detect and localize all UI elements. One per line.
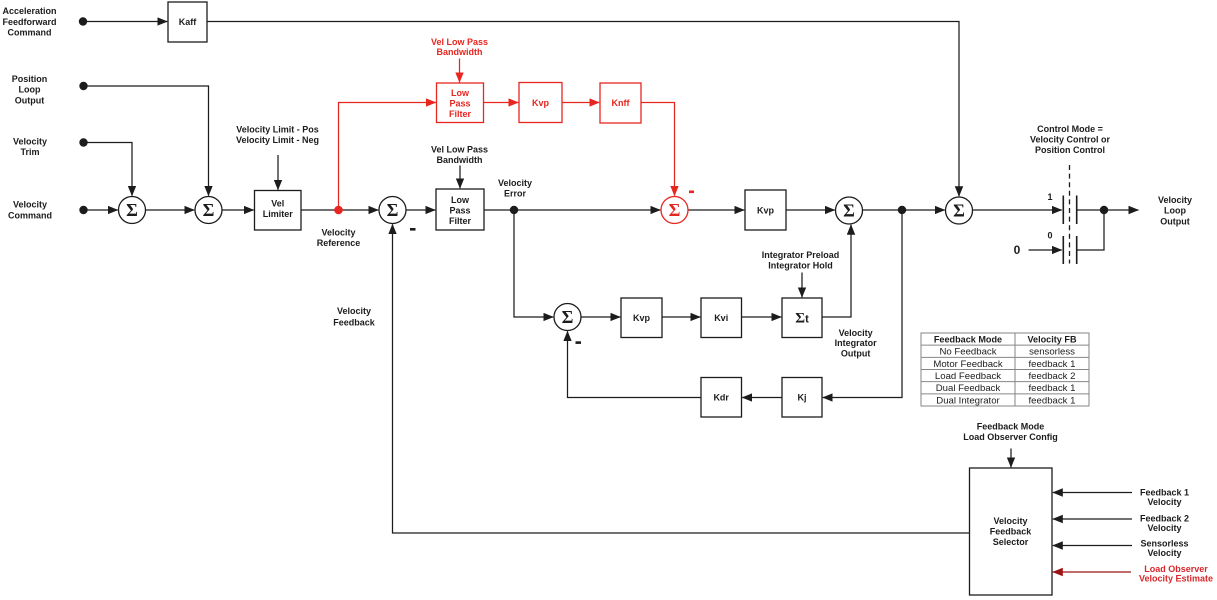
svg-text:Output: Output (15, 95, 45, 105)
svg-text:Velocity: Velocity (1147, 523, 1181, 533)
svg-text:Trim: Trim (20, 147, 39, 157)
svg-text:Velocity: Velocity (321, 228, 355, 238)
svg-text:Motor Feedback: Motor Feedback (933, 359, 1003, 370)
svg-text:Velocity: Velocity (839, 328, 873, 338)
svg-text:Low: Low (451, 88, 470, 98)
svg-text:Dual Integrator: Dual Integrator (936, 395, 1000, 406)
svg-text:Pass: Pass (449, 99, 470, 109)
svg-text:Vel Low Pass: Vel Low Pass (431, 145, 488, 155)
svg-text:Velocity: Velocity (1147, 548, 1181, 558)
svg-text:Σ: Σ (126, 200, 138, 220)
svg-text:Integrator Hold: Integrator Hold (768, 261, 833, 271)
svg-text:Output: Output (1160, 216, 1190, 226)
svg-text:Command: Command (7, 28, 51, 38)
svg-text:Velocity: Velocity (1147, 497, 1181, 507)
svg-text:Limiter: Limiter (263, 209, 294, 219)
svg-text:1: 1 (1047, 192, 1052, 202)
svg-text:Sensorless: Sensorless (1140, 539, 1188, 549)
svg-text:Σ: Σ (387, 200, 399, 220)
svg-text:Kaff: Kaff (179, 17, 198, 27)
svg-text:Load Feedback: Load Feedback (935, 371, 1001, 382)
svg-text:Feedforward: Feedforward (2, 17, 56, 27)
svg-text:Filter: Filter (449, 216, 472, 226)
svg-text:Bandwidth: Bandwidth (437, 155, 483, 165)
svg-text:feedback 1: feedback 1 (1029, 383, 1076, 394)
svg-text:0: 0 (1014, 243, 1021, 257)
svg-text:Position Control: Position Control (1035, 145, 1105, 155)
svg-text:Output: Output (841, 349, 871, 359)
svg-text:Position: Position (12, 74, 48, 84)
svg-text:Filter: Filter (449, 109, 472, 119)
svg-text:Kdr: Kdr (713, 392, 729, 402)
svg-text:Velocity Control or: Velocity Control or (1030, 135, 1111, 145)
svg-text:Velocity: Velocity (13, 137, 47, 147)
svg-text:Load Observer: Load Observer (1144, 564, 1208, 574)
svg-text:Velocity: Velocity (993, 516, 1027, 526)
svg-text:Feedback Mode: Feedback Mode (977, 422, 1045, 432)
svg-text:0: 0 (1047, 231, 1052, 241)
svg-text:Acceleration: Acceleration (2, 6, 56, 16)
svg-text:Velocity Limit - Neg: Velocity Limit - Neg (236, 135, 319, 145)
svg-text:Pass: Pass (449, 206, 470, 216)
svg-text:Σt: Σt (795, 311, 809, 327)
svg-text:Kvi: Kvi (714, 313, 728, 323)
svg-text:Feedback 2: Feedback 2 (1140, 514, 1189, 524)
svg-text:feedback 1: feedback 1 (1029, 359, 1076, 370)
svg-text:Kvp: Kvp (532, 98, 550, 108)
svg-text:Reference: Reference (317, 238, 361, 248)
svg-text:Integrator Preload: Integrator Preload (762, 250, 840, 260)
svg-text:Σ: Σ (843, 201, 855, 221)
svg-text:Σ: Σ (669, 200, 681, 220)
svg-text:Loop: Loop (19, 85, 41, 95)
svg-text:No Feedback: No Feedback (939, 347, 996, 358)
svg-text:Σ: Σ (953, 201, 965, 221)
svg-text:Σ: Σ (562, 307, 574, 327)
svg-text:Kj: Kj (798, 392, 807, 402)
svg-text:feedback 2: feedback 2 (1029, 371, 1076, 382)
svg-text:Control Mode =: Control Mode = (1037, 124, 1103, 134)
svg-text:Σ: Σ (203, 200, 215, 220)
svg-text:Loop: Loop (1164, 206, 1186, 216)
svg-text:Feedback Mode: Feedback Mode (934, 334, 1002, 344)
svg-text:Kvp: Kvp (757, 205, 775, 215)
svg-text:Velocity Estimate: Velocity Estimate (1139, 574, 1213, 584)
svg-text:feedback 1: feedback 1 (1029, 395, 1076, 406)
svg-text:Feedback 1: Feedback 1 (1140, 487, 1189, 497)
svg-text:Velocity: Velocity (498, 178, 532, 188)
svg-text:sensorless: sensorless (1029, 347, 1075, 358)
svg-text:Low: Low (451, 195, 470, 205)
svg-text:Kvp: Kvp (633, 313, 651, 323)
svg-text:Error: Error (504, 188, 527, 198)
svg-text:Velocity FB: Velocity FB (1027, 334, 1076, 344)
svg-text:Dual Feedback: Dual Feedback (936, 383, 1001, 394)
svg-text:Integrator: Integrator (835, 338, 878, 348)
svg-text:Vel: Vel (271, 199, 284, 209)
svg-text:Selector: Selector (993, 537, 1029, 547)
svg-text:Velocity Limit - Pos: Velocity Limit - Pos (236, 124, 319, 134)
svg-text:Load Observer Config: Load Observer Config (963, 432, 1058, 442)
svg-text:Feedback: Feedback (333, 318, 376, 328)
svg-text:Velocity: Velocity (13, 200, 47, 210)
svg-text:Vel Low Pass: Vel Low Pass (431, 37, 488, 47)
svg-text:Velocity: Velocity (337, 306, 371, 316)
svg-text:Bandwidth: Bandwidth (437, 47, 483, 57)
svg-text:Velocity: Velocity (1158, 195, 1192, 205)
svg-text:Knff: Knff (612, 98, 631, 108)
svg-text:Command: Command (8, 210, 52, 220)
svg-text:Feedback: Feedback (990, 527, 1033, 537)
